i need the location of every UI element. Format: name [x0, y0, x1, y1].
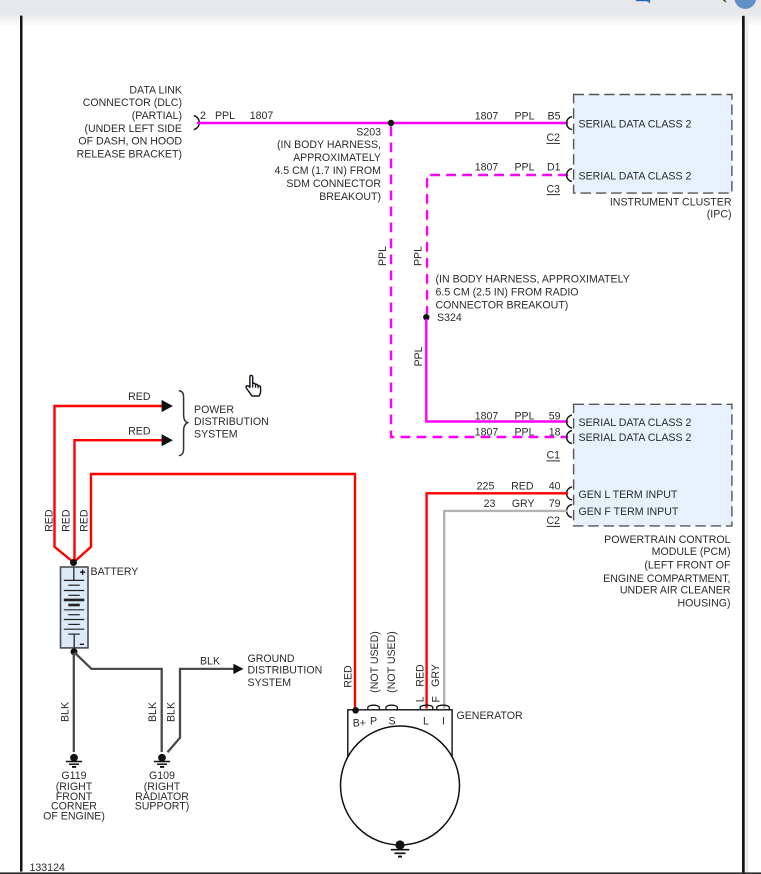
- svg-text:S324: S324: [437, 312, 462, 324]
- svg-text:SUPPORT): SUPPORT): [135, 801, 190, 813]
- generator body circle: [341, 726, 460, 845]
- svg-text:1807: 1807: [475, 411, 499, 423]
- wire labels 23 GRY 79: [484, 498, 561, 510]
- splice S324 label: [436, 273, 630, 324]
- splice S324 node: [423, 314, 429, 320]
- svg-text:1807: 1807: [475, 162, 499, 174]
- svg-text:CONNECTOR BREAKOUT): CONNECTOR BREAKOUT): [436, 299, 569, 311]
- ground G109: [154, 754, 170, 767]
- svg-text:DISTRIBUTION: DISTRIBUTION: [248, 665, 323, 677]
- svg-text:PPL: PPL: [215, 110, 235, 122]
- svg-text:59: 59: [549, 411, 561, 423]
- svg-text:CONNECTOR (DLC): CONNECTOR (DLC): [83, 97, 182, 109]
- ground G119: [66, 754, 82, 767]
- splice S203 node: [388, 120, 394, 126]
- svg-text:RED: RED: [342, 665, 354, 688]
- wire red to power dist arrow 1: [55, 406, 163, 562]
- svg-text:I: I: [442, 715, 445, 727]
- svg-text:SYSTEM: SYSTEM: [248, 677, 292, 689]
- svg-text:S: S: [388, 715, 395, 727]
- pin arc D1: [567, 169, 572, 182]
- pin label C1: [546, 450, 560, 462]
- battery positive node: [70, 559, 77, 566]
- svg-text:D1: D1: [547, 162, 561, 174]
- pin label C2 PCM: [546, 515, 560, 527]
- arrowhead 2: [162, 434, 173, 446]
- wire labels NOT USED rotated: [369, 631, 398, 693]
- svg-text:L: L: [415, 696, 427, 702]
- svg-text:23: 23: [484, 498, 496, 510]
- svg-text:(IPC): (IPC): [707, 209, 732, 221]
- svg-text:RED: RED: [78, 509, 90, 532]
- splice S203 label: [274, 126, 381, 203]
- svg-text:ENGINE COMPARTMENT,: ENGINE COMPARTMENT,: [603, 573, 730, 585]
- svg-text:HOUSING): HOUSING): [678, 598, 731, 610]
- svg-text:(NOT USED): (NOT USED): [386, 631, 398, 693]
- svg-text:C2: C2: [546, 132, 560, 144]
- svg-text:B+: B+: [353, 717, 366, 729]
- svg-text:225: 225: [477, 480, 495, 492]
- svg-text:(LEFT FRONT OF: (LEFT FRONT OF: [644, 559, 731, 571]
- wire solid PPL S324 to PCM pin59: [426, 319, 568, 422]
- wire dashed PPL to IPC D1: [427, 175, 568, 314]
- IPC name: [610, 197, 732, 221]
- svg-text:BLK: BLK: [147, 702, 159, 722]
- frame bottom border: [0, 872, 761, 874]
- svg-text:SERIAL DATA CLASS 2: SERIAL DATA CLASS 2: [579, 417, 692, 429]
- battery minus sign: [80, 643, 84, 645]
- PCM name: [603, 534, 731, 609]
- wire labels BLK rotated x3: [60, 702, 178, 722]
- battery plus terminal: [80, 570, 85, 575]
- svg-text:(NOT USED): (NOT USED): [369, 631, 381, 693]
- toolbar comment icon: [636, 0, 650, 3]
- svg-text:RED: RED: [414, 664, 426, 687]
- svg-text:SERIAL DATA CLASS 2: SERIAL DATA CLASS 2: [579, 432, 692, 444]
- ground G109 label: [135, 770, 190, 813]
- svg-text:SDM CONNECTOR: SDM CONNECTOR: [286, 178, 381, 190]
- mouse hand cursor: [246, 375, 261, 396]
- battery plates: [64, 580, 85, 634]
- svg-text:MODULE (PCM): MODULE (PCM): [652, 546, 731, 558]
- svg-text:RED: RED: [128, 426, 151, 438]
- svg-text:GEN L TERM INPUT: GEN L TERM INPUT: [579, 489, 678, 501]
- svg-text:GRY: GRY: [430, 664, 442, 687]
- svg-text:79: 79: [549, 498, 561, 510]
- wire labels RED rotated x3: [44, 509, 91, 532]
- generator terminal arcs: [368, 705, 450, 710]
- svg-text:18: 18: [549, 426, 561, 438]
- svg-text:BLK: BLK: [165, 702, 177, 722]
- wire labels 1807 PPL B5: [475, 110, 561, 122]
- svg-text:1807: 1807: [475, 426, 499, 438]
- pin arc 40: [567, 487, 572, 500]
- svg-text:GENERATOR: GENERATOR: [457, 710, 523, 722]
- pin arc 18: [567, 431, 572, 444]
- svg-text:BATTERY: BATTERY: [91, 566, 139, 578]
- svg-text:INSTRUMENT CLUSTER: INSTRUMENT CLUSTER: [610, 197, 732, 209]
- arrowhead ground dist: [233, 664, 243, 674]
- svg-text:RED: RED: [60, 509, 72, 532]
- connector pin 2 at DLC: [194, 116, 200, 130]
- battery bottom stem: [73, 634, 75, 649]
- wire blk battery to G119: [73, 653, 75, 752]
- wire labels 2 PPL 1807: [200, 110, 273, 122]
- arrowhead 1: [162, 400, 173, 412]
- svg-text:SYSTEM: SYSTEM: [194, 429, 238, 441]
- frame right border: [742, 16, 745, 874]
- svg-text:RED: RED: [511, 480, 534, 492]
- wire blk ground dist to G109: [168, 669, 234, 752]
- svg-text:BLK: BLK: [60, 702, 72, 722]
- svg-text:1807: 1807: [475, 110, 499, 122]
- svg-text:UNDER AIR CLEANER: UNDER AIR CLEANER: [620, 585, 731, 597]
- svg-text:(UNDER LEFT SIDE: (UNDER LEFT SIDE: [84, 123, 182, 135]
- generator ground: [391, 840, 410, 856]
- svg-text:DISTRIBUTION: DISTRIBUTION: [194, 416, 269, 428]
- svg-text:OF DASH, ON HOOD: OF DASH, ON HOOD: [78, 136, 182, 148]
- toolbar glyph fragment: [723, 0, 725, 2]
- svg-text:PPL: PPL: [514, 110, 534, 122]
- wire red to power dist arrow 2: [75, 440, 163, 559]
- battery negative node: [71, 648, 78, 655]
- svg-text:PPL: PPL: [514, 426, 534, 438]
- svg-text:BLK: BLK: [200, 656, 220, 668]
- svg-text:40: 40: [549, 480, 561, 492]
- brace power distribution: [179, 391, 188, 456]
- ground G119 label: [43, 770, 105, 823]
- wire PPL 1807 DLC to IPC: [197, 122, 568, 124]
- svg-text:RED: RED: [44, 509, 56, 532]
- svg-text:P: P: [370, 715, 377, 727]
- svg-text:6.5 CM (2.5 IN) FROM RADIO: 6.5 CM (2.5 IN) FROM RADIO: [436, 286, 579, 298]
- svg-text:OF ENGINE): OF ENGINE): [43, 811, 105, 823]
- svg-text:PPL: PPL: [377, 246, 389, 266]
- svg-text:B5: B5: [548, 110, 561, 122]
- pin label C2: [546, 132, 560, 144]
- ground distribution system label: [248, 653, 323, 689]
- svg-text:C2: C2: [546, 515, 560, 527]
- svg-text:1807: 1807: [250, 110, 274, 122]
- svg-text:4.5 CM (1.7 IN) FROM: 4.5 CM (1.7 IN) FROM: [274, 165, 381, 177]
- pin arc 79: [567, 504, 572, 517]
- svg-text:C1: C1: [546, 450, 560, 462]
- wire dashed PPL S203 to PCM pin18: [391, 127, 568, 438]
- svg-text:GEN F TERM INPUT: GEN F TERM INPUT: [579, 506, 679, 518]
- generator connector box: [348, 710, 452, 757]
- pin label C3: [546, 183, 560, 195]
- svg-text:2: 2: [200, 110, 206, 122]
- generator terminal labels: [353, 715, 445, 729]
- generator B+ node: [352, 707, 359, 714]
- wire blk battery to G109: [75, 653, 162, 753]
- svg-text:APPROXIMATELY: APPROXIMATELY: [293, 152, 381, 164]
- svg-text:F: F: [431, 696, 443, 703]
- pin arc 59: [567, 415, 572, 428]
- wire labels 1807 PPL 59: [475, 411, 561, 423]
- svg-text:GROUND: GROUND: [248, 653, 295, 665]
- svg-text:PPL: PPL: [514, 411, 534, 423]
- svg-text:C3: C3: [546, 183, 560, 195]
- toolbar bar: [0, 0, 761, 27]
- svg-text:PPL: PPL: [514, 162, 534, 174]
- svg-text:S203: S203: [356, 126, 381, 138]
- wire red PCM to generator L: [427, 493, 568, 708]
- svg-text:BREAKOUT): BREAKOUT): [319, 191, 381, 203]
- svg-text:PPL: PPL: [413, 346, 425, 366]
- svg-text:RED: RED: [128, 391, 151, 403]
- battery box: [61, 567, 89, 648]
- instrument cluster box: [574, 95, 732, 194]
- battery top stem: [73, 567, 75, 580]
- power distribution system label: [194, 404, 269, 441]
- frame right gutter: [745, 16, 749, 874]
- wire gry PCM to generator F: [444, 511, 568, 709]
- svg-text:RELEASE BRACKET): RELEASE BRACKET): [77, 148, 182, 160]
- PCM box: [574, 404, 732, 526]
- svg-text:(IN BODY HARNESS, APPROXIMATEL: (IN BODY HARNESS, APPROXIMATELY: [436, 273, 630, 285]
- wire labels 1807 PPL D1: [475, 162, 561, 174]
- toolbar avatar circle: [734, 0, 756, 9]
- svg-text:133124: 133124: [30, 862, 65, 874]
- wire labels 225 RED 40: [477, 480, 561, 492]
- svg-text:SERIAL DATA CLASS 2: SERIAL DATA CLASS 2: [579, 170, 692, 182]
- wire labels 1807 PPL 18: [475, 426, 561, 438]
- svg-text:(IN BODY HARNESS,: (IN BODY HARNESS,: [277, 139, 381, 151]
- svg-text:L: L: [423, 715, 429, 727]
- svg-text:PPL: PPL: [412, 246, 424, 266]
- pin arc B5: [567, 117, 572, 130]
- frame left border: [20, 16, 23, 872]
- node DLC label: [77, 85, 183, 161]
- svg-text:DATA LINK: DATA LINK: [129, 85, 182, 97]
- svg-text:(PARTIAL): (PARTIAL): [132, 110, 182, 122]
- svg-text:POWERTRAIN CONTROL: POWERTRAIN CONTROL: [604, 534, 730, 546]
- svg-text:SERIAL DATA CLASS 2: SERIAL DATA CLASS 2: [579, 119, 692, 131]
- svg-text:GRY: GRY: [512, 498, 535, 510]
- svg-text:POWER: POWER: [194, 404, 234, 416]
- wire red battery to generator B+: [74, 474, 356, 709]
